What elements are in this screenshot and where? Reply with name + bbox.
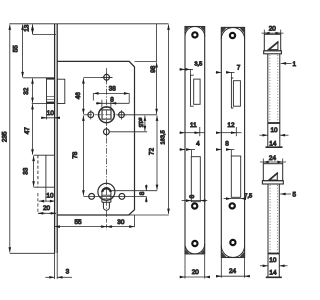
- profile lower faceplate strip: [262, 181, 283, 184]
- svg-text:78: 78: [72, 151, 79, 159]
- latch bolt body inside case: [57, 79, 65, 103]
- svg-text:3: 3: [66, 268, 70, 275]
- svg-text:55: 55: [75, 219, 83, 226]
- profile lower leader 5: [280, 193, 291, 195]
- dimension 8 cylinder line: [145, 185, 147, 191]
- cylinder plug horizontal lines: [102, 194, 111, 196]
- svg-text:24: 24: [229, 268, 237, 275]
- view1 bottom rounded arc: [185, 244, 205, 254]
- view1 dim 4: [180, 149, 185, 151]
- dimension 10 latch line: [42, 117, 60, 119]
- svg-text:20: 20: [43, 205, 51, 212]
- dimension 46 line: [82, 78, 84, 114]
- profile lower shaft walls: [267, 184, 269, 277]
- svg-text:10: 10: [271, 127, 279, 134]
- view2 dim 8: [216, 149, 221, 151]
- svg-text:8: 8: [139, 191, 146, 195]
- follower outer circle: [99, 107, 115, 123]
- svg-text:33: 33: [23, 167, 30, 175]
- svg-text:4: 4: [196, 140, 200, 147]
- cylinder outer circle: [98, 183, 115, 200]
- dimension 8 square extensions: [101, 100, 103, 110]
- dimension 13 line: [32, 24, 34, 34]
- profile upper heavy line: [268, 122, 280, 124]
- profile lower bolt bevel triangle: [269, 173, 278, 180]
- dimension diam15 line: [144, 116, 146, 131]
- svg-text:55: 55: [13, 45, 20, 53]
- profile upper latch bevel triangle: [268, 42, 278, 50]
- dimension 72 line: [156, 116, 158, 190]
- top reference line: [9, 23, 168, 25]
- svg-text:8: 8: [225, 140, 229, 147]
- follower centerline horizontal: [95, 114, 119, 116]
- extension line follower right to dims: [119, 114, 157, 116]
- dimension 163.5 line: [168, 25, 170, 214]
- view1 screw mid: [192, 203, 197, 208]
- cylinder plug heavy top arc: [102, 188, 111, 192]
- svg-text:7: 7: [237, 64, 241, 71]
- svg-text:98: 98: [150, 65, 157, 73]
- view2 deadbolt cutout: [231, 156, 240, 197]
- dimension 32 line: [32, 78, 34, 103]
- svg-text:47: 47: [24, 127, 31, 135]
- view1 screw bottom: [192, 241, 197, 246]
- view1 top corner chamfer marks: [185, 27, 205, 32]
- svg-text:38: 38: [109, 85, 117, 92]
- view2 screw bottom: [230, 240, 235, 245]
- deadbolt dimension 10 line: [39, 200, 55, 202]
- svg-text:163,5: 163,5: [161, 130, 167, 144]
- extension line case top right: [135, 60, 158, 62]
- view1 top rounded arc: [185, 27, 205, 37]
- view2 bottom rounded arc: [221, 246, 244, 258]
- svg-text:20: 20: [269, 26, 277, 33]
- view2 latch head: [233, 81, 240, 107]
- profile lower head: [263, 164, 282, 181]
- extension line latch top: [23, 77, 47, 79]
- faceplate view2 outline: [221, 27, 244, 257]
- svg-text:8: 8: [110, 97, 114, 104]
- follower centerline vertical: [106, 68, 108, 138]
- view2 screw mid: [230, 203, 235, 208]
- svg-text:3,5: 3,5: [194, 62, 202, 68]
- faceplate ext lines down: [54, 253, 56, 279]
- svg-text:32: 32: [23, 87, 30, 95]
- profile lower dim 24: [260, 161, 286, 163]
- svg-text:10: 10: [46, 192, 54, 199]
- extension line latch front: [46, 104, 48, 120]
- case bottom extension right: [129, 214, 169, 216]
- dimension 33 line: [33, 156, 35, 187]
- view2 dim 12: [216, 132, 221, 134]
- deadbolt bottom line: [34, 186, 55, 188]
- svg-text:14: 14: [269, 269, 277, 276]
- profile upper head: [264, 34, 280, 51]
- svg-text:20: 20: [192, 269, 200, 276]
- profile upper faceplate strip: [264, 51, 282, 54]
- profile upper shaft walls: [267, 54, 269, 147]
- view2 latch cutout edge: [231, 78, 233, 108]
- extension line top screw: [83, 77, 112, 79]
- profile lower heavy line: [268, 253, 279, 255]
- profile lower dim 24 extension ticks: [262, 159, 264, 164]
- view2 bottom corner chamfer marks: [221, 251, 244, 257]
- svg-text:13: 13: [23, 24, 30, 32]
- screw hole bottom: [104, 127, 110, 137]
- svg-text:10: 10: [269, 257, 277, 264]
- extension line cylinder center right: [110, 190, 157, 192]
- profile upper shaft dotted inner: [269, 55, 271, 123]
- dimension 38 extension left: [92, 93, 94, 100]
- deadbolt dimension 20 line: [38, 212, 56, 214]
- screw hole top: [101, 73, 113, 83]
- view1 deadbolt cutout: [191, 157, 200, 202]
- faceplate view1 outline: [185, 27, 205, 254]
- svg-text:5: 5: [293, 192, 297, 199]
- svg-text:7,5: 7,5: [244, 194, 252, 200]
- ext case right edge down: [134, 215, 136, 227]
- bottom dimension mid arrows: [100, 226, 107, 228]
- view1 dim 8 bolt cutout: [182, 200, 192, 202]
- cylinder centerline: [105, 138, 107, 214]
- deadbolt top line: [34, 154, 55, 156]
- view1 dim 3.5: [180, 68, 186, 70]
- bottom dimension 55-30 line: [55, 226, 135, 228]
- view2 screw top: [230, 33, 235, 38]
- view2 top rounded arc: [221, 27, 244, 39]
- dimension 98 line: [156, 24, 158, 62]
- dimension 78 line: [82, 116, 84, 196]
- view1 screw top: [192, 32, 197, 37]
- svg-text:46: 46: [75, 92, 82, 100]
- profile lower shaft dotted inner: [269, 185, 271, 254]
- extension line latch bottom: [32, 103, 47, 105]
- svg-text:24: 24: [269, 155, 277, 162]
- svg-text:⌀15: ⌀15: [137, 118, 143, 128]
- cylinder screw right: [119, 194, 125, 200]
- deadbolt ext retracted face: [45, 187, 47, 201]
- view1 dim 20: [181, 276, 209, 278]
- cylinder plug body: [102, 188, 111, 203]
- view2 top corner chamfer marks: [221, 27, 244, 33]
- svg-text:235: 235: [1, 131, 8, 142]
- view2 dim 7: [216, 71, 222, 73]
- latch bolt protruding part: [47, 78, 55, 104]
- screw hole right: [117, 110, 127, 120]
- deadbolt thrown face dashed: [37, 155, 39, 187]
- screw hole left: [88, 110, 94, 120]
- faceplate edge view right line: [56, 24, 58, 254]
- svg-text:10: 10: [47, 110, 55, 117]
- svg-text:12: 12: [227, 122, 235, 129]
- profile upper dim 20 extension ticks: [263, 30, 265, 35]
- svg-text:8: 8: [189, 194, 196, 198]
- dimension 10 latch arrows: [42, 117, 47, 119]
- view1 dim 11: [180, 132, 185, 134]
- svg-text:30: 30: [117, 219, 125, 226]
- follower square hole: [102, 110, 111, 119]
- extension line cylinder screws: [83, 195, 146, 197]
- cylinder lower lobe: [102, 202, 111, 210]
- svg-text:14: 14: [269, 140, 277, 147]
- latch bolt heavy top face: [47, 78, 55, 80]
- extension line screw1: [33, 33, 57, 35]
- view1 latch cutout edge: [191, 75, 194, 106]
- faceplate thickness dim 3 line: [45, 276, 54, 278]
- svg-text:1: 1: [293, 61, 297, 68]
- dimension 47 line: [32, 104, 34, 155]
- profile upper dim 10: [260, 134, 268, 136]
- latch bolt heavy bottom face: [47, 102, 55, 104]
- cylinder screw left: [89, 194, 95, 200]
- view1 latch head: [194, 79, 200, 104]
- dimension 55 line: [22, 25, 24, 78]
- deadbolt retracted face: [45, 155, 47, 187]
- svg-text:72: 72: [149, 148, 156, 156]
- deadbolt ext thrown face: [37, 193, 39, 214]
- profile upper leader 1: [281, 62, 292, 64]
- extension line bottom of faceplate: [10, 252, 55, 254]
- lock case outline: [57, 61, 134, 215]
- dimension 38 extension right: [128, 93, 130, 103]
- dimension 38 line: [93, 92, 129, 94]
- dimension 8 square arrows: [96, 102, 102, 104]
- svg-text:11: 11: [190, 122, 197, 129]
- view1 bottom corner chamfer marks: [185, 249, 205, 254]
- ext centerline down: [106, 213, 108, 230]
- view2 dim 7.5: [224, 198, 232, 200]
- dimension 235 line: [9, 25, 11, 253]
- faceplate edge view left line: [54, 24, 56, 254]
- extension line bottom screw right: [110, 131, 148, 133]
- profile upper dim 20: [262, 32, 284, 34]
- latch bolt inner lines: [47, 96, 55, 98]
- dimension 8 square line: [96, 102, 129, 104]
- extension line follower left: [83, 114, 92, 116]
- view2 dim 24: [218, 275, 249, 277]
- profile lower dim 10: [260, 265, 268, 267]
